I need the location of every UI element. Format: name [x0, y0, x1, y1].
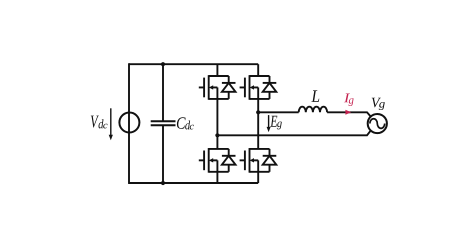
inductor L	[299, 107, 327, 113]
wire node A to V_g return	[217, 130, 371, 135]
wire right leg midpoint (node B)	[257, 99, 259, 149]
transistor Q4 (MOSFET with body diode)	[240, 148, 277, 173]
label I_g	[344, 94, 350, 103]
voltage source V_dc	[119, 113, 139, 133]
wire left leg midpoint (node A)	[216, 99, 218, 149]
arrow E_g direction	[267, 115, 271, 132]
wire Q2 source lead	[216, 172, 218, 183]
node junction dot A	[215, 133, 219, 137]
wire node B to inductor	[258, 111, 299, 113]
label V_g	[372, 98, 381, 108]
current arrow I_g	[345, 110, 351, 115]
wire left branch (through source)	[128, 63, 130, 184]
label E_g	[270, 116, 277, 127]
AC source V_g	[368, 114, 387, 133]
wire Q4 source lead	[257, 172, 259, 183]
node junction dot C_dc top	[161, 62, 165, 66]
arrow V_dc direction	[109, 108, 113, 140]
node junction dot C_dc bottom	[161, 181, 165, 185]
transistor Q1 (MOSFET with body diode)	[199, 75, 236, 100]
label V_dc	[91, 116, 99, 128]
wire Q1 drain lead	[216, 64, 218, 76]
transistor Q2 (MOSFET with body diode)	[199, 148, 236, 173]
wire Q3 drain lead	[257, 64, 259, 76]
label C_dc	[177, 117, 186, 129]
wire bottom DC rail	[129, 182, 258, 184]
transistor Q3 (MOSFET with body diode)	[240, 75, 277, 100]
wire top DC rail	[129, 63, 258, 65]
wire inductor to V_g	[327, 112, 371, 117]
node junction dot B	[256, 110, 260, 114]
capacitor C_dc	[151, 64, 176, 183]
label L	[311, 90, 319, 102]
